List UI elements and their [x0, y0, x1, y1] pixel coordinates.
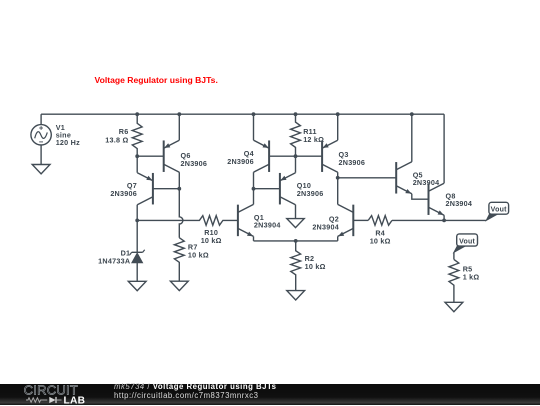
- junction rail/Q4: [252, 112, 256, 116]
- svg-text:1N4733A: 1N4733A: [98, 257, 130, 266]
- wire Q10 collector to ground: [295, 205, 297, 219]
- wire Q8 emitter to output: [443, 215, 445, 220]
- wire emitter row Q1-Q2: [254, 240, 338, 242]
- svg-text:10 kΩ: 10 kΩ: [201, 236, 222, 245]
- wire Q1 emitter down: [253, 236, 255, 241]
- wire Q1 collector up to node: [253, 189, 255, 205]
- CircuitLab logo: [0, 384, 110, 406]
- voltage source V1: [31, 125, 51, 145]
- wire Q7 collector down: [136, 205, 138, 221]
- resistor R4: [368, 216, 392, 226]
- resistor R7: [174, 238, 184, 282]
- svg-text:12 kΩ: 12 kΩ: [303, 135, 324, 144]
- wire Q10 emitter from R11 node: [295, 156, 297, 173]
- wire Q4-Q3 base row: [269, 155, 322, 157]
- wire R4 to output node: [392, 219, 486, 221]
- ground below V1: [32, 165, 50, 174]
- wire Q6 collector to node: [178, 172, 180, 189]
- resistor R6: [132, 114, 142, 156]
- junction rail/R6: [135, 112, 139, 116]
- wire Q10 base: [254, 188, 280, 190]
- wire Q7 emitter from R6 node: [136, 156, 138, 173]
- wire Q2 emitter down: [337, 236, 339, 241]
- ground below R7: [170, 281, 188, 290]
- wire Q2 base to R4: [353, 219, 368, 221]
- svg-text:120 Hz: 120 Hz: [56, 138, 80, 147]
- wire Q4 collector to node: [253, 172, 255, 189]
- resistor R11: [291, 114, 301, 156]
- node R6 bottom junction: [135, 154, 139, 158]
- wire Q3 collector to node: [337, 172, 339, 178]
- zener diode D1: [136, 220, 138, 252]
- transistor Q3: [321, 140, 323, 172]
- wire Q6 base: [137, 155, 164, 157]
- node Q3 collector / Q5 base / Q2 collector: [336, 176, 340, 180]
- node Q6 collector / Q7 base junction: [177, 187, 181, 191]
- ground below R5: [445, 302, 463, 311]
- wire V1 bottom to ground: [40, 145, 42, 165]
- wire rail to Q6 emitter: [178, 114, 180, 140]
- svg-text:Vout: Vout: [459, 238, 475, 245]
- svg-text:2N3904: 2N3904: [254, 220, 281, 229]
- junction rail/Q3: [336, 112, 340, 116]
- svg-text:2N3906: 2N3906: [339, 158, 366, 167]
- svg-text:2N3904: 2N3904: [446, 199, 473, 208]
- ground below R2: [287, 291, 305, 300]
- transistor Q6: [163, 140, 165, 172]
- wire V1 top to rail: [40, 114, 42, 124]
- wire flag to R5: [453, 252, 455, 259]
- svg-text:10 kΩ: 10 kΩ: [370, 236, 391, 245]
- svg-text:2N3904: 2N3904: [312, 222, 339, 231]
- node D1 junction: [135, 219, 139, 223]
- svg-text:2N3906: 2N3906: [227, 157, 254, 166]
- svg-text:LAB: LAB: [64, 395, 86, 405]
- resistor R2: [291, 241, 301, 291]
- junction rail/Q5: [410, 112, 414, 116]
- wire Q7 base: [153, 188, 179, 190]
- svg-text:13.8 Ω: 13.8 Ω: [105, 135, 128, 144]
- net flag Vout (R5 load): [454, 246, 465, 253]
- transistor Q5: [395, 162, 397, 194]
- node Q8 emitter / output junction: [442, 219, 446, 223]
- transistor Q8: [428, 183, 430, 215]
- svg-text:2N3906: 2N3906: [297, 189, 324, 198]
- svg-text:Voltage Regulator using BJTs.: Voltage Regulator using BJTs.: [95, 75, 218, 85]
- transistor Q1: [237, 205, 239, 237]
- wire rail corner down to Q8 collector: [443, 114, 445, 183]
- node R2 top junction: [294, 239, 298, 243]
- svg-text:Vout: Vout: [491, 206, 507, 213]
- wire main mid row D1-node to Q1 base: [137, 219, 187, 221]
- resistor R5: [449, 259, 459, 302]
- net flag Vout (output node): [486, 214, 497, 221]
- node Q4 collector / Q10 base / Q1 collector: [252, 187, 256, 191]
- wire rail to Q4 emitter: [253, 114, 255, 140]
- svg-text:2N3906: 2N3906: [181, 159, 208, 168]
- wire node down to Q2 collector: [337, 178, 339, 205]
- wire top supply rail: [41, 113, 444, 115]
- wire rail to Q3 emitter: [337, 114, 339, 140]
- ground below Q10: [287, 219, 304, 228]
- transistor Q7: [152, 173, 154, 205]
- wire Q5 emitter to Q8 base: [412, 194, 429, 199]
- node R11 bottom / base row junction: [294, 154, 298, 158]
- wire R7 branch with hop over horizontal wire: [179, 189, 183, 238]
- wire rail to Q5 collector: [411, 114, 413, 162]
- svg-text:10 kΩ: 10 kΩ: [305, 262, 326, 271]
- transistor Q4: [268, 140, 270, 172]
- wire node to Q5 base: [338, 177, 397, 179]
- resistor R10: [187, 216, 238, 226]
- junction rail/Q6: [177, 112, 181, 116]
- transistor Q10: [279, 173, 281, 205]
- svg-text:2N3904: 2N3904: [413, 178, 440, 187]
- junction rail/R11: [294, 112, 298, 116]
- svg-text:1 kΩ: 1 kΩ: [463, 272, 480, 281]
- ground below D1: [128, 281, 146, 290]
- transistor Q2: [352, 205, 354, 237]
- svg-text:10 kΩ: 10 kΩ: [188, 251, 209, 260]
- svg-text:2N3906: 2N3906: [110, 189, 137, 198]
